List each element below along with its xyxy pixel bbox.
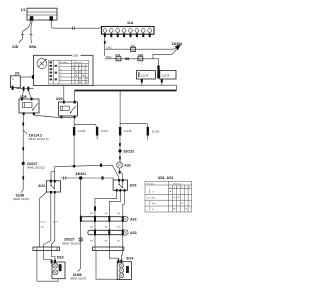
junction bar left bbox=[33, 247, 60, 251]
inline ticks RH2 row bbox=[126, 58, 127, 61]
row pill A32 bbox=[80, 206, 124, 222]
wire 11C/8 down chain 33/223 bbox=[119, 136, 121, 163]
svg-text:11A: 11A bbox=[127, 21, 134, 25]
connector 11C/4 bbox=[137, 71, 156, 80]
svg-text:(RHD 33/232): (RHD 33/232) bbox=[62, 241, 80, 245]
component 1/1 switch box bbox=[21, 8, 57, 20]
wire drop RH2 to connector pin bbox=[153, 59, 159, 66]
wire circle to 3/24 pin bbox=[120, 168, 123, 179]
wires below 3/24 jogs bbox=[95, 192, 117, 217]
connector 11C/9 pin2 bbox=[147, 127, 160, 141]
connector 11C/6 pin bbox=[73, 127, 86, 136]
svg-text:3/20: 3/20 bbox=[56, 97, 63, 101]
svg-text:6/14: 6/14 bbox=[126, 256, 133, 260]
wire block to 3/1 box upper bbox=[20, 76, 33, 78]
wire thick to relay 3/20 bbox=[74, 91, 76, 101]
wire B 33/401 bbox=[61, 178, 114, 181]
terminal fork 5/9A bbox=[30, 35, 33, 44]
svg-text:11C/6: 11C/6 bbox=[78, 129, 86, 133]
svg-text:(RHD 19/113.2): (RHD 19/113.2) bbox=[29, 137, 49, 141]
wire 1/1 left pin to terminals bbox=[23, 21, 31, 35]
wire relay 3/20 pin to 11C/6 bbox=[73, 118, 75, 127]
pin between 11C/4 11C/9 bbox=[157, 66, 159, 79]
ground loop 5/10 bbox=[37, 251, 58, 282]
svg-text:Position: Position bbox=[60, 61, 68, 64]
wire 11C/6 down to wire A bbox=[73, 136, 75, 167]
connector block 41 bbox=[10, 76, 20, 90]
svg-text:33/401: 33/401 bbox=[75, 172, 86, 176]
fuse circles bbox=[103, 29, 152, 33]
chip SB bbox=[22, 123, 24, 126]
fuse pins below bbox=[104, 33, 151, 37]
svg-text:A32: A32 bbox=[124, 164, 130, 168]
relay 3/20 bbox=[56, 97, 78, 118]
riser connector to thick wire bbox=[176, 85, 178, 90]
fuse A22 bbox=[138, 53, 144, 61]
svg-text:1/1: 1/1 bbox=[21, 8, 26, 12]
svg-text:33/223: 33/223 bbox=[123, 150, 134, 154]
lamp A32 top bbox=[117, 162, 131, 168]
wire 3/1 box to relay 3/20 bbox=[63, 86, 65, 101]
verticals below row2 bbox=[95, 235, 123, 247]
inline connector ticks bbox=[72, 26, 74, 30]
svg-text:30-(+49): 30-(+49) bbox=[147, 197, 155, 199]
wire 1/1 right pin to fuse box bbox=[51, 21, 102, 28]
svg-text:31D: 31D bbox=[12, 45, 19, 49]
svg-text:Terminal: Terminal bbox=[173, 182, 181, 185]
position table 3/1 bbox=[49, 60, 89, 84]
pin 1/1 right bbox=[50, 16, 54, 21]
wire 33/401 down chain bbox=[80, 178, 82, 268]
lamp A33 bbox=[123, 230, 137, 235]
fuse box 11A bbox=[102, 21, 155, 34]
wires below 3/22 bbox=[40, 192, 47, 247]
svg-text:11C/9: 11C/9 bbox=[162, 74, 170, 78]
svg-text:BL-R: BL-R bbox=[41, 222, 46, 224]
switch rotary symbol bbox=[37, 59, 47, 69]
link wire to 11C/7 bbox=[74, 124, 96, 127]
svg-text:(RHD 31/57): (RHD 31/57) bbox=[70, 276, 86, 280]
svg-text:33/204: 33/204 bbox=[172, 42, 183, 46]
wire A drops to 3/22 bbox=[51, 167, 55, 181]
wire A top rail bbox=[55, 165, 119, 179]
svg-text:(RHD 31/97): (RHD 31/97) bbox=[13, 197, 29, 201]
row pill A33 bbox=[88, 230, 124, 236]
svg-text:Terminal: Terminal bbox=[74, 61, 82, 64]
node 33/227 bbox=[22, 162, 25, 165]
wire relay 2/26 down chain bbox=[22, 115, 24, 190]
junction bar right bbox=[93, 247, 124, 251]
fuse A41 bbox=[115, 53, 121, 61]
lamp A32 bbox=[123, 216, 137, 221]
pins below connectors bbox=[141, 79, 143, 83]
node 33/223 bbox=[118, 149, 121, 152]
svg-text:11C/8: 11C/8 bbox=[124, 129, 132, 133]
ground loop 6/14 bbox=[96, 251, 120, 280]
fuse A4 bbox=[131, 44, 136, 52]
svg-text:(RHD 33/232): (RHD 33/232) bbox=[27, 165, 45, 169]
thick feed wire bbox=[75, 90, 177, 92]
svg-text:5/9A: 5/9A bbox=[29, 45, 37, 49]
terminal fork 31D bbox=[19, 35, 24, 44]
wire block to relays lower bbox=[17, 87, 34, 89]
svg-text:11C/4: 11C/4 bbox=[141, 74, 149, 78]
wire RH2 row bbox=[105, 58, 153, 60]
node 31/56 bbox=[78, 268, 81, 271]
wire fuse1 down to rows bbox=[104, 37, 106, 56]
node 33/204 arrow bbox=[153, 42, 182, 59]
svg-text:5/10: 5/10 bbox=[57, 256, 64, 260]
svg-text:3/22: 3/22 bbox=[38, 184, 45, 188]
wires bar to 5/10 bbox=[44, 251, 55, 263]
bulb unit 5/10 bbox=[52, 256, 65, 279]
pin 1/1 left bbox=[30, 16, 34, 21]
switch 3/24 bbox=[113, 179, 136, 192]
link wire to 11C/9 pin bbox=[120, 124, 148, 127]
svg-text:1SB: 1SB bbox=[73, 53, 79, 57]
connector 11C/7 pin bbox=[96, 127, 109, 139]
svg-text:Position: Position bbox=[147, 182, 155, 185]
table 3/22 3/24 bbox=[145, 176, 192, 212]
switch 3/22 bbox=[38, 180, 60, 194]
node 19/114.2 bbox=[23, 130, 27, 134]
svg-text:3/1: 3/1 bbox=[15, 72, 20, 76]
connector 11C/8 pin bbox=[119, 127, 132, 136]
svg-text:A33: A33 bbox=[130, 231, 136, 235]
wire relay 2/26 diagonal to relay 3/20 pin bbox=[34, 115, 74, 118]
svg-text:11C/7: 11C/7 bbox=[101, 129, 109, 133]
wire LH2 row bbox=[105, 48, 174, 50]
verticals between rows bbox=[95, 221, 123, 230]
svg-text:3/24: 3/24 bbox=[130, 183, 137, 187]
wires bar to 6/14 bbox=[109, 251, 122, 262]
svg-text:GL-R: GL-R bbox=[53, 222, 58, 224]
bulb unit 6/14 bbox=[117, 256, 133, 279]
connector 11C/9 bbox=[160, 71, 176, 80]
relay 2/26 bbox=[19, 95, 39, 119]
chip bbox=[22, 147, 24, 150]
chip bbox=[22, 176, 24, 179]
svg-text:2/26: 2/26 bbox=[20, 95, 27, 99]
svg-text:A32: A32 bbox=[130, 218, 136, 222]
wire thick drop to 11C/8 bbox=[119, 91, 121, 128]
light switch 3/1 assembly bbox=[15, 55, 93, 85]
wire bus y85 bbox=[142, 83, 162, 86]
node 31/96 bbox=[21, 190, 23, 193]
svg-text:3/22, 3/24: 3/22, 3/24 bbox=[158, 176, 174, 180]
svg-text:11C/9: 11C/9 bbox=[152, 130, 160, 134]
wires to relay 2/26 bbox=[22, 91, 31, 98]
label 1SB on top edge bbox=[72, 53, 81, 57]
